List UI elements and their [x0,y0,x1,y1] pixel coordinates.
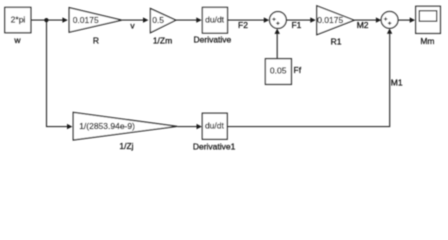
svg-text:1/(2853.94e-9): 1/(2853.94e-9) [79,121,135,131]
svg-text:M1: M1 [391,78,403,88]
gain R [69,8,122,33]
svg-text:1/Zj: 1/Zj [119,141,133,151]
arrowhead into R [62,17,67,22]
junction dot [44,18,48,22]
wire R to 1/Zm [122,19,144,21]
arrowhead into R1 [310,17,315,22]
wire w to R [31,19,63,21]
svg-text:0.5: 0.5 [152,15,164,25]
arrowhead into sum1 [264,17,269,22]
derivative1 block [202,113,227,139]
svg-text:0.05: 0.05 [270,66,287,76]
arrowhead into 1/Zm [143,17,148,22]
arrowhead into 1/Zj [67,124,72,129]
scope block Mm [416,6,441,33]
svg-text:w: w [13,35,21,45]
arrowhead sum1 bottom input [275,29,280,34]
constant block w [5,7,31,32]
svg-text:R1: R1 [331,37,342,47]
svg-text:1/Zm: 1/Zm [153,36,172,46]
gain 1/Zj [73,112,177,140]
svg-text:Derivative: Derivative [194,35,232,45]
svg-text:Ff: Ff [294,65,302,75]
svg-text:0.0175: 0.0175 [73,15,99,25]
wire sum2 to scope [398,19,410,21]
wire M1 Derivative1 to sum2 [228,33,390,126]
wire sum1 to R1 [286,19,311,21]
wire 1/Zj to Derivative1 [177,126,197,128]
wire R1 to sum2 [354,19,376,21]
sum junction M [381,12,398,29]
arrowhead into Derivative [196,17,201,22]
wire Ff to sum1 [276,34,278,59]
arrowhead into scope [410,17,415,22]
svg-text:Mm: Mm [420,36,434,46]
svg-text:du/dt: du/dt [205,120,225,130]
arrowhead sum2 bottom input [387,28,392,33]
constant block Ff [265,59,291,85]
svg-text:F1: F1 [291,20,301,30]
svg-text:M2: M2 [357,20,369,30]
wire branch down to 1/Zj [47,20,68,127]
svg-text:R: R [93,35,99,45]
wire 1/Zm to Derivative [176,19,197,21]
arrowhead into sum2 [376,17,381,22]
svg-text:F2: F2 [238,20,248,30]
svg-text:Derivative1: Derivative1 [193,142,236,152]
arrowhead into Derivative1 [197,124,202,129]
gain 1/Zm [150,9,175,33]
svg-text:2*pi: 2*pi [11,15,26,25]
gain R1 [317,6,354,35]
wire Derivative to sum1 [228,19,265,21]
svg-text:0.0175: 0.0175 [317,15,343,25]
svg-text:du/dt: du/dt [205,14,225,24]
derivative block [202,7,227,33]
sum junction F1 [270,12,287,29]
